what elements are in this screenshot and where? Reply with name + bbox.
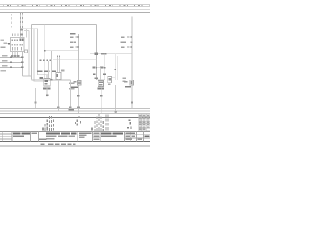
- indicator P1: [56, 73, 61, 80]
- power rail L2: [0, 12, 150, 14]
- pin labels 1 3 5: [12, 34, 18, 36]
- load device: [98, 81, 103, 87]
- phase wire T1: [0, 55, 23, 58]
- wire end tick: [46, 94, 49, 96]
- junction node: [115, 69, 116, 70]
- phase wire T3: [0, 65, 23, 68]
- wire: [28, 31, 30, 77]
- title block internal lines: [0, 132, 150, 142]
- junction node: [104, 67, 105, 68]
- wire: [70, 80, 72, 109]
- wire end tick: [77, 95, 80, 97]
- rotated margin text blob: [91, 128, 93, 131]
- phase wire T2: [0, 60, 23, 63]
- cable core wire: [51, 59, 53, 80]
- relay internal marks row 1: [12, 39, 18, 41]
- operating arrow: [5, 43, 8, 45]
- junction node: [114, 111, 117, 113]
- frame top border band: [0, 5, 150, 7]
- wire: [37, 29, 39, 75]
- revision table entries: [139, 115, 149, 130]
- wire corner: [45, 51, 79, 60]
- frame divider line: [0, 117, 150, 119]
- power rail L1: [0, 8, 150, 10]
- coil tag: [74, 81, 77, 83]
- junction node: [44, 50, 45, 51]
- valve text: [122, 78, 126, 82]
- wire: [131, 17, 133, 109]
- wire corner: [23, 75, 32, 77]
- wire end tick: [100, 95, 103, 97]
- solenoid Y1: [130, 80, 134, 85]
- PE wire: [35, 88, 37, 109]
- wire: [100, 68, 102, 80]
- wire corner: [22, 28, 26, 30]
- junction node: [104, 53, 105, 54]
- motor overload relay F1: [11, 38, 25, 52]
- relay bottom pins: [13, 52, 18, 56]
- revision table: [139, 114, 150, 131]
- branch corner pair: [115, 54, 117, 80]
- load text below: [98, 88, 104, 90]
- reference text block: [69, 82, 75, 89]
- terminal strip X1: [40, 59, 52, 61]
- reference text: [1, 39, 4, 41]
- branch wire: [97, 67, 105, 69]
- conductor size text: [1, 70, 7, 71]
- wire: [104, 54, 106, 75]
- wire: [58, 80, 60, 112]
- enclosure top wire: [32, 24, 97, 26]
- wire label: [101, 53, 107, 55]
- contact reference rows: [70, 36, 79, 48]
- load top wire: [97, 79, 105, 81]
- valve Y2: [108, 76, 112, 82]
- PE wire label: [35, 102, 37, 104]
- wire bus junction text: [69, 108, 74, 111]
- wire: [44, 25, 46, 79]
- wire bus label: [77, 106, 80, 108]
- valve bottom mark: [108, 83, 110, 84]
- wire drop from rail: [20, 13, 22, 38]
- page symbol: [127, 119, 131, 128]
- title text row 2: [13, 135, 149, 140]
- title block top line: [0, 131, 150, 133]
- aux contact reference box: [25, 50, 28, 53]
- rotated margin text columns center: [94, 114, 108, 131]
- wire: [96, 25, 98, 80]
- junction node: [96, 53, 97, 54]
- wire corner long: [32, 79, 71, 81]
- bottom bus line PE: [0, 110, 150, 112]
- wire: [78, 86, 80, 114]
- wire stub: [27, 28, 37, 30]
- wire label: [95, 53, 99, 55]
- frame column digits: [7, 5, 140, 6]
- motor wire: [46, 86, 48, 97]
- wire: [22, 52, 24, 77]
- relay internal marks row 2: [12, 44, 24, 46]
- wire: [104, 75, 106, 80]
- wire corner: [34, 80, 44, 82]
- valve branch stub: [112, 76, 116, 78]
- motor tag M1: [40, 77, 43, 79]
- solenoid text: [125, 86, 131, 88]
- title text row 3: [39, 137, 142, 140]
- wire: [33, 29, 35, 82]
- pin labels 2 4 6: [11, 55, 19, 57]
- motor M1: [44, 79, 50, 87]
- rotated margin text small blob: [42, 128, 44, 131]
- frame column ticks: [3, 4, 149, 6]
- junction node: [96, 67, 97, 68]
- wire: [115, 85, 117, 114]
- wire: [31, 25, 33, 80]
- indicator label: [61, 70, 64, 72]
- node labels: [20, 29, 23, 36]
- solenoid tag: [124, 81, 127, 83]
- branch label: [93, 67, 96, 69]
- wire number marks: [20, 13, 23, 28]
- wire end label: [69, 106, 71, 108]
- wire: [48, 61, 50, 79]
- control wire tap: [70, 33, 76, 35]
- branch label: [100, 67, 103, 69]
- reference text: [1, 46, 6, 48]
- cable designation text: [37, 71, 56, 73]
- contact reference rows: [120, 36, 132, 48]
- frame bottom border: [0, 145, 150, 147]
- title block bottom line: [0, 140, 150, 142]
- motor rating text: [43, 88, 51, 90]
- wire: [78, 34, 80, 81]
- wire: [100, 87, 102, 114]
- wire: [26, 29, 28, 38]
- coil terminal text: [71, 86, 78, 88]
- rotated margin text columns left: [45, 116, 55, 131]
- rotated margin marks mid: [75, 116, 81, 125]
- aux contact labels 95 96: [20, 39, 24, 41]
- load pin labels: [93, 74, 106, 76]
- title text row 1: [13, 132, 135, 134]
- cable core end mark: [50, 79, 52, 81]
- wire corner: [24, 30, 29, 32]
- bottom bus line N: [0, 108, 150, 110]
- cable designation text column: [10, 14, 13, 28]
- relay contact strokes: [13, 47, 22, 51]
- motor stubs: [45, 75, 47, 79]
- wire end label: [57, 106, 59, 108]
- coil K2: [77, 81, 81, 85]
- wire: [53, 58, 97, 60]
- control bus wire: [90, 53, 132, 55]
- load tag: [95, 77, 98, 79]
- motor feeder corner: [38, 74, 49, 76]
- footer page index text: [41, 143, 76, 145]
- bottom bus line 0V: [0, 113, 150, 115]
- wire pair: [57, 55, 60, 72]
- wire end label: [131, 102, 133, 104]
